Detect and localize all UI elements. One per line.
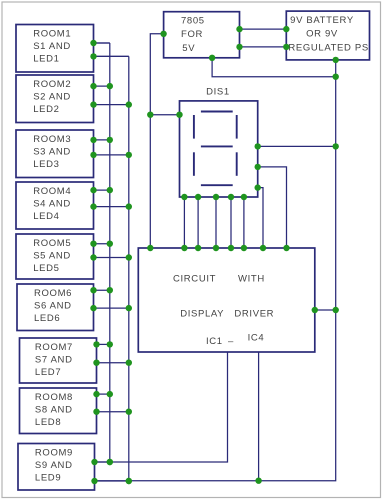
- wire LED1 to LED bus: [94, 55, 129, 57]
- wire LED bus (column B): [128, 56, 130, 481]
- svg-text:LED7: LED7: [35, 367, 61, 378]
- junction driver top pin: [260, 245, 266, 251]
- svg-text:ROOM1: ROOM1: [33, 28, 71, 39]
- junction DIS1 right pin 2: [255, 164, 261, 170]
- junction S9 pin: [91, 459, 97, 465]
- segment d (bottom): [201, 184, 233, 186]
- segment e (bottom-left): [193, 152, 195, 176]
- svg-text:LED6: LED6: [34, 313, 60, 324]
- junction S8 on switch bus: [107, 391, 113, 397]
- junction 7805 in lower left: [236, 44, 242, 50]
- svg-text:LED5: LED5: [33, 263, 59, 274]
- junction S7 pin: [93, 341, 99, 347]
- block ROOM7 (S7 and LED7): [20, 338, 97, 383]
- svg-text:DRIVER: DRIVER: [234, 308, 274, 319]
- block ROOM1 (S1 and LED1): [16, 25, 94, 73]
- junction LED5 pin: [90, 254, 96, 260]
- junction 7805 ground pin: [209, 55, 215, 61]
- regulator U5 7805: [164, 12, 240, 58]
- display DIS1 body: [180, 101, 258, 197]
- svg-text:ROOM4: ROOM4: [33, 186, 71, 197]
- svg-text:S4 AND: S4 AND: [33, 198, 71, 209]
- junction S5 pin: [90, 241, 96, 247]
- wire S7 to switch bus: [97, 343, 110, 345]
- wire driver output to 9V rail: [315, 309, 336, 311]
- junction LED2 on LED bus: [126, 101, 132, 107]
- junction driver top pin: [213, 245, 219, 251]
- junction DIS1 right pin 3: [255, 184, 261, 190]
- wire 7805 ground to 9V rail: [212, 58, 336, 77]
- svg-text:DIS1: DIS1: [206, 87, 230, 98]
- junction driver pin on bottom bus: [255, 478, 261, 484]
- junction 7805 in lower right: [283, 44, 289, 50]
- junction LED5 on LED bus: [126, 254, 132, 260]
- svg-text:WITH: WITH: [238, 273, 265, 284]
- junction S4 pin: [90, 187, 96, 193]
- wire LED9 to bottom bus: [95, 480, 129, 482]
- junction LED3 pin: [90, 152, 96, 158]
- svg-text:LED8: LED8: [35, 417, 61, 428]
- junction LED4 on LED bus: [126, 203, 132, 209]
- junction switch bus end: [107, 459, 113, 465]
- junction driver top pin: [181, 245, 187, 251]
- junction S9 on switch bus: [107, 459, 113, 465]
- junction 5V rail tee at DIS1: [147, 112, 153, 118]
- junction LED bus end: [126, 478, 132, 484]
- junction LED7 on LED bus: [126, 360, 132, 366]
- svg-text:S2 AND: S2 AND: [33, 91, 71, 102]
- wire LED3 to LED bus: [94, 154, 129, 156]
- junction 7805 in upper left: [236, 26, 242, 32]
- junction DIS1 bottom pin 1: [181, 194, 187, 200]
- junction S4 on switch bus: [107, 187, 113, 193]
- svg-text:7805: 7805: [181, 16, 205, 27]
- block ROOM4 (S4 and LED4): [16, 182, 94, 229]
- segment b (top-right): [236, 115, 238, 139]
- svg-text:CIRCUIT: CIRCUIT: [173, 273, 216, 284]
- wire LED4 to LED bus: [94, 206, 129, 208]
- svg-text:S9 AND: S9 AND: [35, 460, 73, 471]
- junction LED4 pin: [90, 203, 96, 209]
- wire LED8 to LED bus: [97, 411, 129, 413]
- wire DIS1 segment pin 3 to driver: [215, 197, 217, 248]
- svg-text:–: –: [228, 336, 234, 347]
- svg-text:S8 AND: S8 AND: [35, 404, 73, 415]
- block ROOM3 (S3 and LED3): [16, 130, 94, 178]
- junction S3 on switch bus: [107, 137, 113, 143]
- wire S6 to switch bus: [94, 289, 110, 291]
- junction LED7 pin: [93, 360, 99, 366]
- svg-text:IC1: IC1: [206, 336, 223, 347]
- svg-text:IC4: IC4: [248, 332, 265, 343]
- block ROOM5 (S5 and LED5): [16, 234, 94, 279]
- block ROOM6 (S6 and LED6): [17, 284, 94, 331]
- junction LED3 on LED bus: [126, 152, 132, 158]
- wire 5V rail: 7805 out to driver box: [150, 34, 163, 248]
- junction driver right pin: [312, 307, 318, 313]
- svg-text:S5 AND: S5 AND: [33, 250, 71, 261]
- wire 9V rail: battery minus down to bottom bus: [95, 60, 336, 481]
- junction DIS1 bottom pin 5: [241, 194, 247, 200]
- junction LED6 on LED bus: [126, 305, 132, 311]
- wire S1 to switch bus: [94, 42, 110, 44]
- junction S3 pin: [90, 137, 96, 143]
- svg-text:ROOM9: ROOM9: [35, 447, 73, 458]
- segment a (top): [201, 111, 233, 113]
- wire S3 to switch bus: [94, 139, 110, 141]
- wire R1 LED elbow: [94, 55, 129, 57]
- svg-text:LED4: LED4: [33, 211, 59, 222]
- svg-text:ROOM3: ROOM3: [33, 134, 71, 145]
- block ROOM9 (S9 and LED9): [18, 444, 95, 491]
- junction driver top pin: [241, 245, 247, 251]
- svg-text:S3 AND: S3 AND: [33, 146, 71, 157]
- junction 7805 output pin: [160, 31, 166, 37]
- wire S9 stub: [95, 461, 110, 463]
- wire 7805 input from battery (lower): [240, 46, 287, 48]
- junction driver top pin: [283, 245, 289, 251]
- wire DIS1 pin to driver top (right elbow): [258, 167, 287, 248]
- junction LED6 pin: [90, 305, 96, 311]
- wire DIS1 segment pin 1 to driver: [183, 197, 185, 248]
- junction 9V rail tee at driver: [333, 307, 339, 313]
- junction driver top pin: [195, 245, 201, 251]
- svg-text:ROOM2: ROOM2: [33, 79, 71, 90]
- junction LED2 pin: [90, 101, 96, 107]
- svg-text:S6 AND: S6 AND: [34, 300, 72, 311]
- wire DIS1 segment pin 4 to driver: [230, 197, 232, 248]
- wire DIS1 segment pin 5 to driver: [243, 197, 245, 248]
- wire S4 to switch bus: [94, 189, 110, 191]
- junction driver top pin: [228, 245, 234, 251]
- junction battery minus pin: [333, 57, 339, 63]
- junction 5V rail at driver box: [147, 245, 153, 251]
- junction LED9 pin: [91, 478, 97, 484]
- junction LED9 on LED bus: [126, 478, 132, 484]
- wire DIS1 pin to driver top (short elbow): [258, 188, 263, 248]
- wire S8 to switch bus: [97, 393, 110, 395]
- junction 9V rail tee at DIS1: [333, 143, 339, 149]
- junction S1 pin: [90, 40, 96, 46]
- wire R1 switch elbow: [94, 42, 110, 44]
- svg-text:ROOM8: ROOM8: [35, 392, 73, 403]
- wire LED7 to LED bus: [97, 362, 129, 364]
- wire driver pin to bottom bus: [258, 352, 260, 481]
- svg-text:ROOM5: ROOM5: [33, 238, 71, 249]
- driver circuit U1 (IC1-IC4): [138, 248, 314, 352]
- junction DIS1 bottom pin 4: [228, 194, 234, 200]
- block ROOM8 (S8 and LED8): [20, 388, 97, 434]
- junction DIS1 bottom pin 3: [213, 194, 219, 200]
- svg-text:OR 9V: OR 9V: [306, 29, 338, 40]
- svg-text:S7 AND: S7 AND: [35, 354, 73, 365]
- junction LED8 on LED bus: [126, 409, 132, 415]
- wire LED5 to LED bus: [94, 257, 129, 259]
- segment g (middle): [201, 145, 233, 147]
- svg-text:5V: 5V: [182, 43, 195, 54]
- junction S8 pin: [93, 391, 99, 397]
- svg-text:9V BATTERY: 9V BATTERY: [290, 15, 354, 26]
- wire 7805 input from battery (upper): [240, 28, 287, 30]
- segment c (bottom-right): [236, 152, 238, 176]
- segment f (top-left): [193, 115, 195, 139]
- wire S2 to switch bus: [94, 85, 110, 87]
- junction S5 on switch bus: [107, 241, 113, 247]
- svg-text:LED2: LED2: [33, 104, 59, 115]
- svg-text:LED1: LED1: [33, 54, 59, 65]
- svg-text:S1 AND: S1 AND: [33, 41, 71, 52]
- wire DIS1 segment pin 2 to driver: [197, 197, 199, 248]
- svg-text:LED9: LED9: [35, 473, 61, 484]
- svg-text:ROOM7: ROOM7: [35, 342, 73, 353]
- wire DIS1 common to 5V rail: [150, 114, 179, 116]
- junction ground tee on 9V rail: [333, 74, 339, 80]
- junction S7 on switch bus: [107, 341, 113, 347]
- display DIS1 label: [206, 87, 230, 98]
- wire S5 to switch bus: [94, 243, 110, 245]
- svg-text:ROOM6: ROOM6: [34, 288, 72, 299]
- wire LED6 to LED bus: [94, 307, 129, 309]
- junction LED8 pin: [93, 409, 99, 415]
- junction S6 on switch bus: [107, 287, 113, 293]
- junction S2 pin: [90, 83, 96, 89]
- block ROOM2 (S2 and LED2): [16, 75, 94, 123]
- battery BT1 9V: [286, 11, 369, 60]
- wire DIS1 pin to 9V rail: [258, 145, 336, 147]
- svg-text:FOR: FOR: [181, 29, 203, 40]
- wire driver pin to switch bus / S9: [95, 352, 228, 462]
- wire LED2 to LED bus: [94, 104, 129, 106]
- svg-text:DISPLAY: DISPLAY: [180, 308, 224, 319]
- svg-text:LED3: LED3: [33, 159, 59, 170]
- junction 7805 in upper right: [283, 26, 289, 32]
- svg-text:REGULATED PS: REGULATED PS: [288, 43, 368, 54]
- junction S6 pin: [90, 287, 96, 293]
- junction LED1 pin: [90, 53, 96, 59]
- junction DIS1 common pin: [176, 112, 182, 118]
- junction DIS1 right pin 1: [255, 143, 261, 149]
- wire switch bus (column A): [109, 43, 111, 462]
- junction DIS1 bottom pin 2: [195, 194, 201, 200]
- junction S2 on switch bus: [107, 83, 113, 89]
